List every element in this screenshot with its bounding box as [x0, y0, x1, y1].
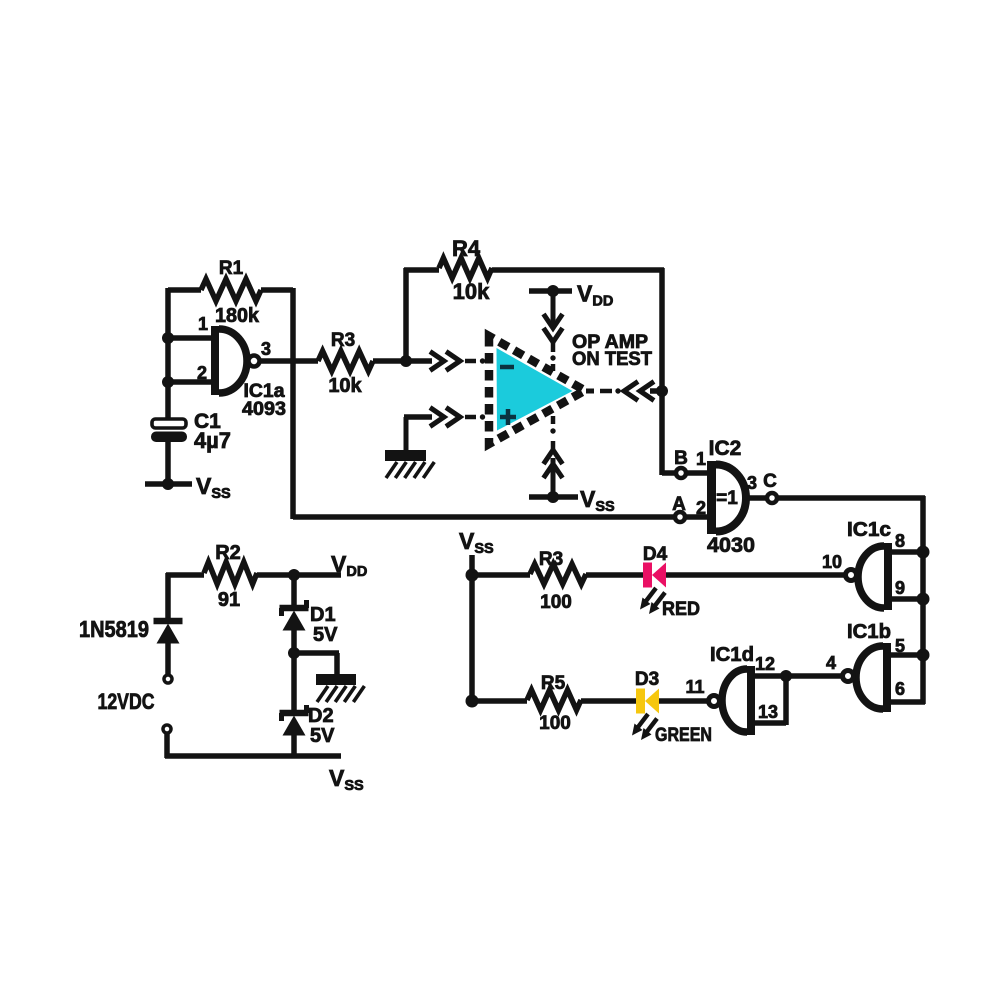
wire A to IC2 [685, 514, 713, 520]
IC1c output bubble [846, 570, 857, 581]
label VSS (LED rail) [459, 528, 494, 557]
svg-text:3: 3 [261, 339, 271, 359]
svg-text:R3: R3 [331, 330, 355, 351]
input arrow chevrons (non-inverting) [430, 408, 460, 427]
wire IC1d pin13 loop [753, 676, 786, 725]
node VDD junction [547, 285, 559, 297]
wire IC2 output [749, 495, 766, 501]
label =1 [716, 488, 738, 509]
NAND gate IC1c body (mirrored) [858, 543, 888, 610]
label 4093 [242, 399, 286, 420]
label IC1a [244, 381, 285, 402]
svg-text:100: 100 [540, 592, 572, 613]
label pin 9 [895, 578, 905, 598]
wire D2 to bottom rail [291, 735, 297, 758]
label pin 2 (IC2) [696, 498, 706, 518]
label pin 6 [895, 679, 905, 699]
wire IC1c pin9 [890, 596, 923, 602]
label 12VDC [98, 689, 155, 714]
svg-text:RED: RED [662, 599, 700, 620]
resistor R3 (10k) [318, 351, 373, 371]
wire mid node to ground [294, 653, 339, 676]
output arrow chevrons [624, 382, 654, 401]
label R1 [219, 258, 244, 279]
label 100 (R3) [540, 592, 572, 613]
wire IC1d pin12 [753, 673, 788, 679]
label 180k [215, 305, 260, 327]
svg-text:3: 3 [747, 473, 757, 493]
svg-text:IC1c: IC1c [847, 519, 891, 541]
svg-text:4: 4 [826, 653, 836, 673]
label pin 13 [758, 702, 778, 722]
LED D3 emission arrows [632, 714, 657, 740]
svg-text:5V: 5V [310, 725, 335, 747]
label pin 2 [197, 363, 207, 383]
wire output to node [650, 388, 664, 394]
label pin 8 [895, 531, 905, 551]
label pin 1 (IC2) [696, 449, 706, 469]
wire D3 to IC1d pin11 [659, 698, 709, 704]
label 5V (D2) [310, 725, 335, 747]
wire VDD down [551, 291, 556, 320]
wire R1 right to corner [261, 287, 293, 293]
label pin 5 [895, 636, 905, 656]
terminal circle (+12V) [164, 675, 172, 683]
wire R3 to junction [373, 358, 432, 364]
svg-text:R3: R3 [539, 549, 563, 570]
svg-text:B: B [674, 448, 688, 469]
wire C to bus [777, 495, 925, 501]
label IC1d [710, 644, 754, 666]
label A [672, 494, 686, 515]
svg-text:VSS: VSS [459, 528, 494, 557]
label VSS (op-amp) [580, 486, 615, 515]
label IC1b [847, 621, 891, 643]
resistor R2 [204, 562, 257, 584]
zener diode D1 [280, 600, 309, 631]
VSS arrow chevrons up [544, 441, 563, 497]
label R2 [215, 542, 241, 564]
node VDD junction (supply) [288, 569, 300, 581]
svg-text:1: 1 [198, 314, 208, 334]
op-amp U1 (device under test) [489, 336, 585, 444]
wire B to IC2 [686, 470, 713, 476]
wire D4 to IC1c pin10 [666, 572, 846, 578]
svg-text:4µ7: 4µ7 [194, 428, 231, 453]
svg-text:R4: R4 [452, 236, 481, 261]
label D4 [643, 544, 668, 565]
node junction pin2 [162, 376, 174, 388]
wire VSS rail vertical [469, 555, 475, 703]
IC1a output bubble [249, 356, 260, 367]
label pin 11 [685, 677, 704, 697]
svg-text:1: 1 [696, 449, 706, 469]
label OP AMP [572, 332, 648, 353]
label VDD (supply) [331, 551, 367, 580]
label pin 10 [822, 552, 842, 572]
label RED [662, 599, 700, 620]
svg-text:D3: D3 [635, 669, 659, 690]
svg-text:IC2: IC2 [709, 437, 742, 460]
terminal A circle [675, 512, 685, 522]
label pin 3 (IC2) [747, 473, 757, 493]
label pin 12 [755, 654, 775, 674]
label 1N5819 [79, 616, 149, 642]
label pin 3 [261, 339, 271, 359]
label 5V (D1) [313, 624, 338, 646]
wire R1 top-left segment [168, 288, 201, 341]
label 4u7 [194, 428, 231, 453]
svg-text:12: 12 [755, 654, 775, 674]
label C [763, 471, 777, 492]
VSS terminal bar [529, 494, 578, 500]
svg-text:A: A [672, 494, 686, 515]
dash-dot to op-amp plus input [465, 414, 485, 419]
svg-text:8: 8 [895, 531, 905, 551]
IC1d output bubble [709, 696, 720, 707]
wire to R3b [472, 572, 530, 578]
op-amp minus sign [500, 365, 514, 370]
wire left vertical pin2 to C1 [165, 382, 171, 420]
capacitor C1 [151, 419, 187, 442]
svg-text:13: 13 [758, 702, 778, 722]
node bus/pin9 [917, 593, 930, 606]
svg-text:91: 91 [218, 589, 240, 611]
wire 1N5819 to terminal [165, 642, 171, 674]
label R3 (10k) [331, 330, 355, 351]
ground symbol (plus input) [385, 450, 434, 478]
wire IC1b pin5 [889, 652, 923, 658]
label D2 [308, 705, 334, 727]
wire bus vertical [920, 496, 926, 704]
label 100 (R5) [539, 713, 571, 734]
node bus/pin8 [917, 546, 930, 559]
label B [674, 448, 688, 469]
svg-text:4093: 4093 [242, 399, 286, 420]
wire VDD node to D1 [291, 575, 297, 609]
node junction R3/R4 [400, 355, 412, 367]
svg-text:1N5819: 1N5819 [79, 616, 149, 642]
svg-text:9: 9 [895, 578, 905, 598]
resistor R1 [201, 279, 261, 301]
terminal circle (0V) [163, 725, 171, 733]
svg-text:D1: D1 [310, 604, 336, 626]
svg-text:180k: 180k [215, 305, 260, 327]
resistor R4 [439, 258, 492, 278]
svg-text:D4: D4 [643, 544, 668, 565]
zener diode D2 [280, 705, 309, 736]
svg-text:2: 2 [197, 363, 207, 383]
svg-text:10k: 10k [328, 375, 362, 397]
svg-text:GREEN: GREEN [655, 725, 712, 746]
diode 1N5819 [154, 621, 183, 644]
label pin 4 [826, 653, 836, 673]
svg-text:R1: R1 [219, 258, 244, 279]
VDD terminal bar [529, 288, 572, 294]
wire R5 to D3 [581, 698, 638, 704]
VDD arrow chevrons down [544, 314, 563, 352]
label C1 [194, 410, 221, 433]
svg-text:ON TEST: ON TEST [572, 349, 652, 370]
NAND gate IC1b body (mirrored) [856, 643, 887, 712]
svg-text:R5: R5 [541, 673, 566, 694]
label R4 [452, 236, 481, 261]
wire to R5 [472, 698, 527, 704]
wire R2 to VDD [257, 572, 341, 578]
dash-dot to op-amp minus input [465, 358, 485, 363]
label 10k [328, 375, 362, 397]
label D3 [635, 669, 659, 690]
svg-text:C: C [763, 471, 777, 492]
wire IC1b pin4 [786, 673, 842, 679]
dash-dot output [600, 388, 621, 393]
terminal C circle [767, 493, 777, 503]
ground symbol (mid-rail) [316, 674, 364, 702]
label R3 (100) [539, 549, 563, 570]
node junction pin1 [162, 332, 174, 344]
resistor R3 (100) [530, 564, 586, 584]
wire IC1a pin3 to R3 [261, 358, 318, 364]
wire C1 to ground [165, 441, 171, 484]
wire plus-input stub [404, 417, 432, 452]
node bus/pin5 [917, 649, 930, 662]
label R5 [541, 673, 566, 694]
label ON TEST [572, 349, 652, 370]
svg-text:12VDC: 12VDC [98, 689, 155, 714]
svg-text:D2: D2 [308, 705, 334, 727]
NAND gate IC1d body (mirrored) [722, 666, 751, 735]
svg-text:VSS: VSS [580, 486, 615, 515]
node VSS junction [547, 491, 559, 503]
LED D4 red [643, 563, 666, 588]
node VSS/R3 junction [466, 569, 479, 582]
label IC2 [709, 437, 742, 460]
svg-text:VSS: VSS [329, 765, 364, 794]
node mid-rail junction [288, 647, 300, 659]
label pin 1 [198, 314, 208, 334]
wire R3b to D4 [586, 572, 645, 578]
wire R4 top right [492, 267, 664, 273]
wire supply top-left corner [166, 573, 204, 621]
label VDD (op-amp) [577, 281, 613, 310]
svg-text:R2: R2 [215, 542, 241, 564]
label 4030 [707, 534, 755, 557]
resistor R5 (100) [527, 690, 581, 710]
wire D1 to mid node [291, 630, 297, 655]
svg-text:IC1d: IC1d [710, 644, 754, 666]
svg-text:6: 6 [895, 679, 905, 699]
svg-text:11: 11 [685, 677, 704, 697]
op-amp plus sign [500, 409, 516, 425]
svg-text:VDD: VDD [331, 551, 367, 580]
label GREEN [655, 725, 712, 746]
node pin12/pin13 junction [780, 670, 792, 682]
wire mid node to D2 [291, 653, 297, 714]
op-amp output nub [586, 389, 594, 394]
wire IC1a pin1 [168, 335, 214, 341]
wire IC1b pin6 [889, 699, 925, 705]
terminal B circle [676, 468, 686, 478]
label D1 [310, 604, 336, 626]
LED D4 emission arrows [640, 588, 665, 614]
label IC1c [847, 519, 891, 541]
ground terminal Vss (C1) [145, 478, 192, 490]
svg-text:4030: 4030 [707, 534, 755, 557]
IC1b output bubble [843, 671, 854, 682]
label 10k (R4) [453, 279, 490, 304]
svg-text:5V: 5V [313, 624, 338, 646]
NAND gate IC1a body [216, 326, 248, 395]
wire right vertical to output node [659, 268, 665, 475]
svg-text:10k: 10k [453, 279, 490, 304]
dash-dot VDD to op-amp top [550, 355, 555, 371]
svg-text:10: 10 [822, 552, 842, 572]
wire vertical node3 down to A-net [290, 288, 296, 519]
dash-dot op-amp bottom to VSS [550, 416, 555, 434]
LED D3 green(yellow) [636, 689, 659, 714]
node VSS/R5 junction [466, 695, 479, 708]
wire IC1a pin2 [168, 379, 214, 385]
wire IC1c pin8 [890, 549, 923, 555]
label VSS (supply) [329, 765, 364, 794]
svg-text:IC1b: IC1b [847, 621, 891, 643]
XOR gate IC2 body [712, 461, 747, 534]
svg-text:100: 100 [539, 713, 571, 734]
svg-text:VDD: VDD [577, 281, 613, 310]
label Vss (C1 ground) [196, 473, 231, 502]
wire R4 left vertical [403, 268, 409, 361]
wire bottom-left [165, 733, 341, 758]
node output junction [656, 385, 668, 397]
wire left vertical pin1-pin2 [165, 338, 171, 384]
input arrow chevrons (inverting) [430, 352, 460, 371]
svg-text:=1: =1 [716, 488, 738, 509]
svg-text:VSS: VSS [196, 473, 231, 502]
wire B from output node [662, 470, 677, 476]
wire A long segment [293, 514, 676, 520]
label 91 [218, 589, 240, 611]
wire R4 top left [404, 267, 439, 273]
